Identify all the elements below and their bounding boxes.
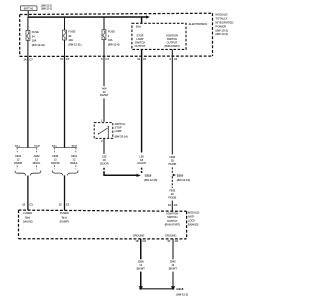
- svg-text:ELECTRONICS: ELECTRONICS: [189, 22, 208, 26]
- svg-text:12: 12: [22, 202, 25, 206]
- svg-text:OUTPUT: OUTPUT: [167, 219, 178, 223]
- svg-text:(8W-12-3): (8W-12-3): [41, 8, 52, 11]
- svg-text:C7: C7: [66, 57, 70, 61]
- svg-text:20: 20: [171, 158, 174, 162]
- svg-text:A942: A942: [34, 154, 41, 158]
- svg-text:G918: G918: [176, 287, 183, 291]
- svg-text:LAMP: LAMP: [115, 129, 122, 133]
- svg-text:GROUND: GROUND: [133, 233, 145, 237]
- svg-text:(VALVE): (VALVE): [23, 220, 33, 224]
- svg-text:LOCK: LOCK: [188, 218, 195, 222]
- svg-text:12: 12: [137, 57, 140, 61]
- svg-text:B(+): B(+): [136, 24, 141, 28]
- svg-text:2: 2: [108, 34, 110, 38]
- svg-text:(8W-15-2): (8W-15-2): [176, 292, 188, 296]
- svg-text:(PUMP): (PUMP): [60, 220, 69, 224]
- svg-text:SWITCH-: SWITCH-: [115, 122, 126, 126]
- svg-text:C7: C7: [106, 57, 110, 61]
- svg-text:10: 10: [168, 203, 171, 207]
- svg-text:IGNITION: IGNITION: [166, 33, 178, 37]
- svg-text:S310: S310: [177, 173, 184, 177]
- svg-text:L50: L50: [102, 155, 107, 159]
- svg-text:RD/DB: RD/DB: [14, 161, 22, 165]
- svg-text:DG/OR: DG/OR: [137, 161, 146, 165]
- svg-text:SWITCH: SWITCH: [167, 215, 177, 219]
- svg-text:FUSED: FUSED: [60, 211, 69, 215]
- svg-text:IGNITION: IGNITION: [167, 212, 179, 216]
- svg-text:RD/HL: RD/HL: [33, 161, 41, 165]
- svg-text:34: 34: [32, 34, 35, 38]
- svg-text:Z942: Z942: [170, 260, 176, 264]
- svg-text:4: 4: [169, 57, 171, 61]
- svg-text:FUSE: FUSE: [108, 29, 115, 33]
- svg-text:OUTPUT: OUTPUT: [167, 40, 178, 44]
- svg-text:(8W-10-3): (8W-10-3): [215, 32, 228, 36]
- svg-text:DG/OR: DG/OR: [100, 161, 109, 165]
- svg-text:BRAKES: BRAKES: [188, 222, 199, 226]
- svg-text:PK/DB: PK/DB: [168, 162, 176, 166]
- svg-text:C1: C1: [30, 202, 34, 206]
- svg-text:C1: C1: [174, 57, 178, 61]
- svg-text:(8W-12-21): (8W-12-21): [68, 43, 81, 47]
- svg-text:B(+): B(+): [25, 215, 30, 219]
- svg-text:STOP: STOP: [115, 126, 122, 130]
- svg-text:GROUND: GROUND: [165, 233, 177, 237]
- svg-text:TO P: TO P: [34, 145, 40, 148]
- svg-text:(8W-12-19): (8W-12-19): [177, 178, 190, 182]
- svg-text:TO L: TO L: [15, 145, 21, 148]
- svg-text:F932: F932: [169, 189, 175, 193]
- svg-text:FUSE: FUSE: [32, 30, 39, 34]
- svg-text:SWITCH: SWITCH: [135, 40, 145, 44]
- svg-text:TO P: TO P: [71, 145, 77, 148]
- svg-text:C2: C2: [175, 239, 179, 243]
- svg-text:A942: A942: [15, 154, 22, 158]
- svg-text:C2: C2: [143, 239, 147, 243]
- svg-text:18: 18: [136, 239, 139, 243]
- svg-text:F932: F932: [169, 155, 175, 159]
- svg-text:ANTI-: ANTI-: [188, 215, 195, 219]
- svg-text:RD/HL: RD/HL: [70, 161, 78, 165]
- svg-text:FUSE: FUSE: [68, 30, 75, 34]
- svg-text:BK/WT: BK/WT: [169, 266, 178, 270]
- svg-text:DG/WT: DG/WT: [100, 93, 109, 97]
- svg-text:FUSED: FUSED: [23, 211, 32, 215]
- svg-text:30: 30: [68, 34, 71, 38]
- svg-text:14: 14: [24, 57, 27, 61]
- svg-text:(8W-12-25): (8W-12-25): [144, 178, 157, 182]
- svg-text:(RUN-START): (RUN-START): [165, 223, 180, 226]
- svg-text:A941: A941: [71, 154, 78, 158]
- svg-text:5: 5: [101, 57, 103, 61]
- svg-text:B(+): B(+): [62, 215, 67, 219]
- svg-text:L50: L50: [139, 154, 144, 158]
- svg-text:(8W-12-6): (8W-12-6): [108, 42, 120, 46]
- svg-text:10A: 10A: [32, 39, 37, 43]
- svg-text:STOP: STOP: [136, 33, 143, 37]
- svg-text:11: 11: [60, 57, 63, 61]
- svg-text:1: 1: [101, 118, 103, 122]
- svg-text:C7: C7: [29, 57, 33, 61]
- svg-text:12: 12: [59, 202, 62, 206]
- svg-text:(8W-12-22): (8W-12-22): [32, 43, 45, 47]
- svg-text:C1: C1: [66, 202, 70, 206]
- svg-text:SWITCH: SWITCH: [167, 37, 177, 41]
- svg-text:MODULE-: MODULE-: [188, 211, 200, 215]
- svg-text:BK/WT: BK/WT: [137, 266, 146, 270]
- svg-text:S318: S318: [145, 174, 152, 178]
- svg-text:A04: A04: [102, 86, 107, 90]
- svg-text:C1: C1: [143, 57, 147, 61]
- svg-text:BATT A0: BATT A0: [24, 8, 34, 11]
- svg-text:PK/DB: PK/DB: [168, 195, 176, 199]
- svg-text:(8W-33-14): (8W-33-14): [115, 134, 128, 138]
- svg-text:Z906: Z906: [138, 260, 144, 264]
- svg-text:RD/OB: RD/OB: [51, 161, 59, 165]
- svg-text:(RUN-START): (RUN-START): [164, 45, 179, 48]
- svg-text:TO L: TO L: [52, 145, 58, 148]
- svg-text:10A: 10A: [108, 38, 113, 42]
- svg-text:OUTPUT: OUTPUT: [135, 44, 146, 48]
- svg-text:A942: A942: [52, 154, 59, 158]
- svg-text:LAMP: LAMP: [136, 37, 143, 41]
- svg-text:2: 2: [101, 139, 103, 143]
- svg-text:40A: 40A: [68, 38, 73, 42]
- svg-text:C2: C2: [174, 203, 178, 207]
